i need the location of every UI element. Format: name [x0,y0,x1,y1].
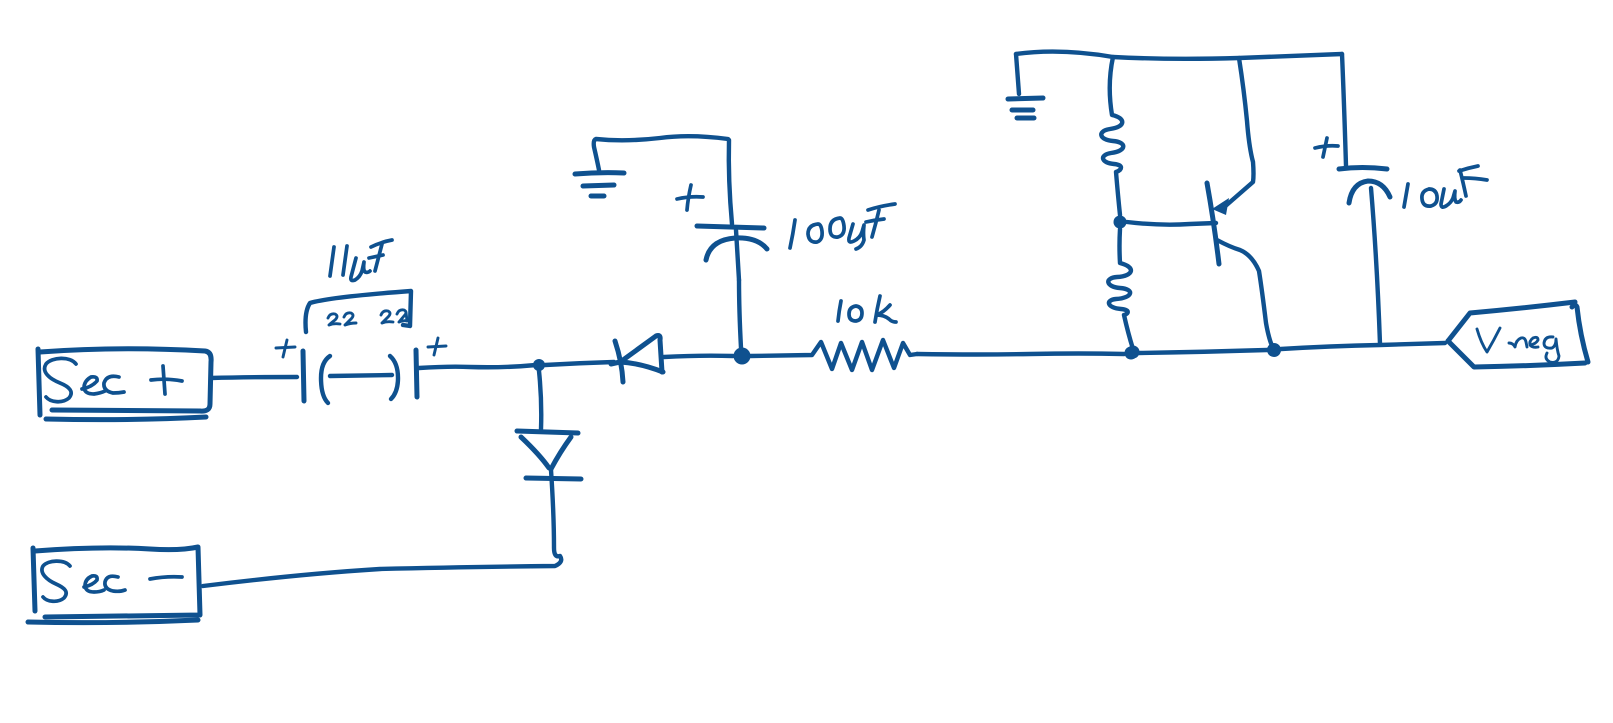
C1 plus right [428,338,446,355]
ground G1 [575,173,624,196]
ground G2 top [1008,54,1043,118]
port Sec+ label text [45,358,182,401]
node E junction [1114,216,1127,229]
C3 lower lead [1371,188,1380,344]
C3 plus sign [1315,138,1338,157]
Q1 emitter wire from rail [1222,58,1254,209]
C1 plus left [276,340,295,357]
C2 curved plate [706,238,767,260]
wire Sec+ to C1 [211,377,297,378]
Q1 emitter arrowhead [1212,198,1229,215]
wire D2 to Sec- [203,470,561,586]
resistor R3 lower [1108,229,1133,349]
node F junction [1127,346,1140,359]
R1 value 10k [838,296,896,322]
C2 plus sign [677,185,703,210]
C2 flat plate [697,226,764,228]
wire R1 to node C [917,354,1124,355]
C3 curved plate [1349,181,1390,203]
C2 top lead [729,140,732,224]
wire node A to D1 [545,362,614,365]
wire C2 top to ground G1 [594,136,728,170]
wire D1 to node B [664,356,733,357]
diode D1 [611,336,663,383]
port Sec- label text [42,561,182,601]
C2 value 100uF [790,204,895,249]
wire node C to node D [1138,350,1267,353]
node B junction [734,348,751,365]
top rail [1016,52,1342,59]
capacitor C2 100uF branch: wire up [739,280,741,348]
resistor R2 upper [1101,57,1123,215]
resistor R1 10k [750,340,917,370]
port Sec+ box [38,349,211,420]
C3 value 10uF [1404,166,1487,207]
wire node A down to D2 [539,371,541,429]
C1 bracket over caps [306,291,412,332]
port Vneg flag [1448,302,1588,367]
Q1 collector [1217,240,1273,348]
port Sec- box [28,547,200,623]
capacitor C1 series pair [303,350,417,403]
capacitor C3 10uF: lead from rail [1342,54,1346,166]
node A junction [533,359,545,371]
Vneg text [1477,328,1559,362]
C2 lead through plate [736,230,739,280]
C1 text 22 22 [328,310,407,325]
wire C1 to node A [419,365,536,368]
diode D2 [517,431,581,479]
node C junction [1125,347,1138,360]
C3 flat plate [1339,168,1387,170]
node D junction [1267,343,1281,357]
base wire node E to Q1 [1127,222,1216,225]
transistor Q1 base bar [1207,183,1219,264]
wire node D to Vneg [1281,343,1445,349]
C1 value 11uF [330,240,392,281]
